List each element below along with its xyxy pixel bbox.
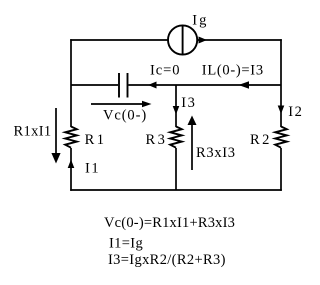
svg-text:Vc(0-): Vc(0-)	[103, 108, 147, 124]
svg-text:Vc(0-)=R1xI1+R3xI3: Vc(0-)=R1xI1+R3xI3	[104, 215, 235, 231]
svg-text:R2: R2	[250, 132, 272, 148]
svg-text:R3xI3: R3xI3	[196, 145, 236, 161]
svg-text:Ig: Ig	[192, 13, 208, 29]
svg-text:I3: I3	[181, 95, 196, 111]
svg-text:IL(0-)=I3: IL(0-)=I3	[202, 63, 264, 79]
svg-text:I1=Ig: I1=Ig	[109, 236, 143, 252]
svg-text:R1: R1	[85, 132, 107, 148]
svg-text:R1xI1: R1xI1	[14, 124, 52, 140]
svg-text:I1: I1	[85, 161, 100, 177]
svg-text:I2: I2	[288, 104, 303, 120]
svg-text:R3: R3	[146, 132, 168, 148]
svg-text:Ic=0: Ic=0	[150, 63, 181, 79]
svg-text:I3=IgxR2/(R2+R3): I3=IgxR2/(R2+R3)	[108, 252, 226, 268]
